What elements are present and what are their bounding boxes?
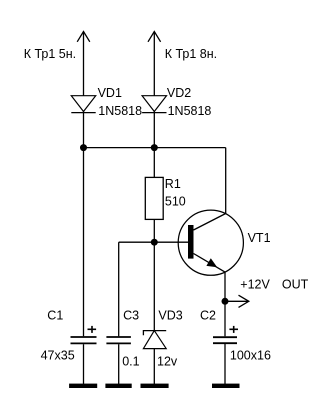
zener diode VD3	[143, 331, 166, 349]
svg-text:1N5818: 1N5818	[168, 104, 212, 118]
svg-text:VT1: VT1	[248, 231, 271, 245]
wire: left rail C1 bottom plate to ground	[83, 344, 85, 384]
svg-text:OUT: OUT	[282, 278, 309, 292]
polarity + (C2)	[229, 326, 238, 333]
wire: middle vertical rail (arrow top to R1 top)	[153, 32, 155, 178]
wire: horizontal supply bus	[84, 147, 226, 149]
ground (C2)	[212, 384, 240, 388]
resistor R1	[145, 177, 163, 219]
capacitor C2	[213, 337, 237, 343]
svg-text:C3: C3	[123, 308, 139, 322]
svg-text:К Тр1 8н.: К Тр1 8н.	[165, 47, 217, 61]
capacitor C3	[106, 337, 130, 343]
wire: C2 bottom to ground	[224, 344, 226, 385]
ground (C3)	[105, 384, 131, 388]
transistor VT1	[178, 210, 243, 275]
capacitor C1	[71, 337, 97, 343]
svg-text:VD1: VD1	[98, 86, 122, 100]
svg-text:100x16: 100x16	[230, 349, 271, 363]
svg-text:VD3: VD3	[158, 308, 182, 322]
wire: collector drop from bus	[225, 148, 227, 214]
input arrow right (to winding Tp1 pin8)	[148, 32, 161, 42]
output arrow	[239, 295, 249, 307]
ground (VD3)	[141, 384, 169, 388]
svg-text:C1: C1	[47, 308, 63, 322]
svg-text:К Тр1 5н.: К Тр1 5н.	[24, 47, 76, 61]
node: junction middle rail / bus	[151, 144, 158, 151]
polarity + (C1)	[88, 326, 97, 333]
wire: output stub	[225, 300, 249, 302]
svg-text:VD2: VD2	[167, 86, 191, 100]
wire: emitter drop to output node and C2	[224, 272, 226, 336]
node: output junction	[222, 298, 229, 305]
svg-text:510: 510	[165, 194, 186, 208]
svg-text:12v: 12v	[157, 354, 178, 368]
wire: left vertical rail (arrow top to C1 top plate)	[83, 32, 85, 337]
svg-text:R1: R1	[165, 177, 181, 191]
wire: middle rail R1 bottom through VD3 to ground	[153, 219, 155, 384]
svg-text:0.1: 0.1	[122, 354, 139, 368]
wire: C3 branch vertical	[118, 242, 120, 336]
svg-text:C2: C2	[200, 308, 216, 322]
diode VD1 symbol	[71, 96, 95, 113]
wire: C3 bottom to ground	[118, 344, 120, 384]
diode VD2 symbol	[142, 96, 166, 113]
input arrow left (to winding Tp1 pin5)	[77, 32, 90, 42]
node: junction base / middle rail	[151, 239, 158, 246]
wire: base line	[119, 241, 188, 243]
svg-text:+12V: +12V	[240, 278, 270, 292]
ground (C1)	[69, 384, 97, 388]
svg-text:1N5818: 1N5818	[98, 104, 142, 118]
svg-text:47x35: 47x35	[41, 349, 75, 363]
node: junction left rail / bus	[80, 144, 87, 151]
